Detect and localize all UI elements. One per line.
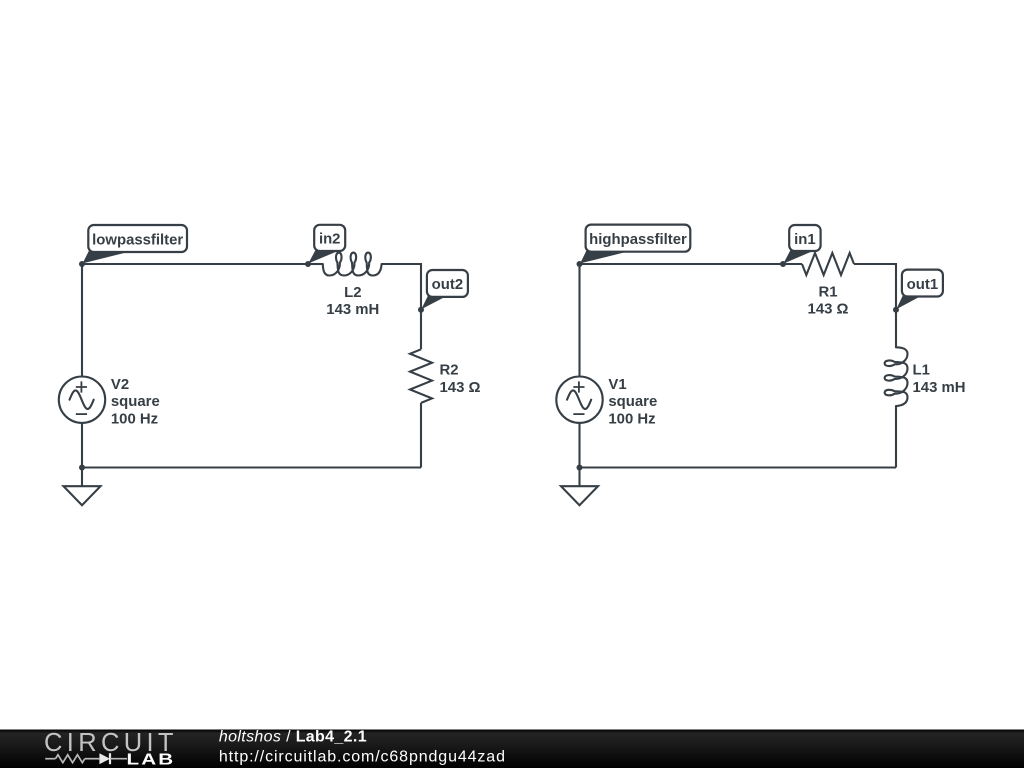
svg-text:in1: in1 xyxy=(794,232,816,248)
wire: lowpass bottom rail xyxy=(82,466,421,468)
node label bubble: out1 xyxy=(902,270,943,297)
wire: L2 right terminal to top-right corner down to R2 xyxy=(382,264,421,349)
svg-text:L2: L2 xyxy=(344,285,361,301)
ground symbol (highpass): triangle xyxy=(561,486,598,505)
CircuitLab logo schematic squiggle: wire to diode xyxy=(85,758,100,760)
node label bubble: highpassfilter xyxy=(586,225,691,252)
svg-text:100 Hz: 100 Hz xyxy=(608,411,655,427)
CircuitLab logo schematic squiggle: lead-in wire xyxy=(45,758,55,760)
svg-text:out1: out1 xyxy=(907,277,938,293)
node label tail: out1 xyxy=(896,294,920,309)
svg-text:100 Hz: 100 Hz xyxy=(111,411,158,427)
voltage source V2: plus sign xyxy=(76,381,87,392)
CircuitLab logo diode: cathode bar xyxy=(109,753,111,764)
svg-text:R2: R2 xyxy=(440,363,459,379)
svg-text:143 Ω: 143 Ω xyxy=(440,380,481,396)
wire: lowpass left rail, node to V2 plus terminal xyxy=(81,264,83,377)
wire: highpass top rail, in1 to R1 left terminal xyxy=(783,263,802,265)
node label bubble: lowpassfilter xyxy=(88,225,187,252)
svg-text:V2: V2 xyxy=(111,377,129,393)
svg-text:in2: in2 xyxy=(319,232,341,248)
svg-text:143 Ω: 143 Ω xyxy=(808,301,849,317)
node label tail: in2 xyxy=(308,249,337,263)
ground symbol (highpass): stub wire xyxy=(578,468,580,487)
node label tail: out2 xyxy=(421,295,445,310)
svg-text:143 mH: 143 mH xyxy=(913,380,966,396)
node label tail: lowpassfilter xyxy=(83,250,126,263)
junction node: lowpass ground junction xyxy=(79,465,85,471)
inductor L2 coil xyxy=(323,253,382,276)
svg-text:LAB: LAB xyxy=(127,751,176,768)
ground symbol (lowpass): stub wire xyxy=(81,468,83,487)
node label bubble: in1 xyxy=(789,225,820,251)
node label bubble: in2 xyxy=(314,225,345,251)
voltage source V1: sine waveform xyxy=(567,390,591,409)
svg-text:143 mH: 143 mH xyxy=(326,302,379,318)
resistor R1 zigzag xyxy=(802,253,854,275)
resistor R2 zigzag xyxy=(410,349,432,403)
CircuitLab logo diode: anode triangle xyxy=(99,753,110,764)
wire: highpass bottom rail xyxy=(580,466,897,468)
svg-text:R1: R1 xyxy=(818,284,837,300)
wire: L1 bottom terminal to bottom-right corner xyxy=(895,406,897,467)
wire: R2 bottom to bottom-right corner xyxy=(420,403,422,468)
junction node: highpass ground junction xyxy=(577,465,583,471)
junction node: lowpassfilter net at top-left xyxy=(79,261,85,267)
svg-text:L1: L1 xyxy=(913,363,930,379)
wire: lowpass top rail, node lowpassfilter to node in2 xyxy=(82,263,308,265)
svg-text:out2: out2 xyxy=(432,277,463,293)
junction node: in2 xyxy=(305,261,311,267)
svg-text:holtshos / Lab4_2.1: holtshos / Lab4_2.1 xyxy=(219,729,367,746)
voltage source V1: plus sign xyxy=(573,381,584,392)
wire: V1 minus terminal to bottom rail xyxy=(578,423,580,468)
junction node: out1 xyxy=(893,307,899,313)
node label tail: highpassfilter xyxy=(580,250,624,264)
svg-text:highpassfilter: highpassfilter xyxy=(589,232,687,248)
wire: V2 minus terminal to bottom rail xyxy=(81,423,83,468)
svg-text:lowpassfilter: lowpassfilter xyxy=(92,232,183,248)
footer bar background xyxy=(0,730,1024,769)
ground symbol (lowpass): triangle xyxy=(64,486,101,505)
voltage source V1: minus sign xyxy=(573,413,584,415)
voltage source V2: minus sign xyxy=(76,413,87,415)
CircuitLab logo schematic squiggle: wire out of diode xyxy=(110,758,127,760)
svg-text:http://circuitlab.com/c68pndgu: http://circuitlab.com/c68pndgu44zad xyxy=(219,748,506,765)
junction node: out2 xyxy=(418,307,424,313)
inductor L1 coil xyxy=(885,347,908,406)
voltage source V1: circle body xyxy=(556,377,602,423)
svg-text:V1: V1 xyxy=(608,377,626,393)
wire: lowpass top rail, in2 to L2 left terminal xyxy=(308,263,323,265)
voltage source V2: sine waveform xyxy=(70,390,94,409)
junction node: highpassfilter net at top-left xyxy=(577,261,583,267)
node label tail: in1 xyxy=(783,249,812,263)
wire: highpass left rail, node to V1 plus terminal xyxy=(578,264,580,377)
wire: R1 right terminal to top-right corner down to L1 xyxy=(854,264,896,347)
CircuitLab logo schematic squiggle: resistor zigzag xyxy=(56,755,85,763)
voltage source V2: circle body xyxy=(59,377,105,423)
svg-text:square: square xyxy=(608,394,657,410)
junction node: in1 xyxy=(780,261,786,267)
node label bubble: out2 xyxy=(427,270,468,297)
svg-text:square: square xyxy=(111,394,160,410)
wire: highpass top rail, node highpassfilter to node in1 xyxy=(580,263,784,265)
